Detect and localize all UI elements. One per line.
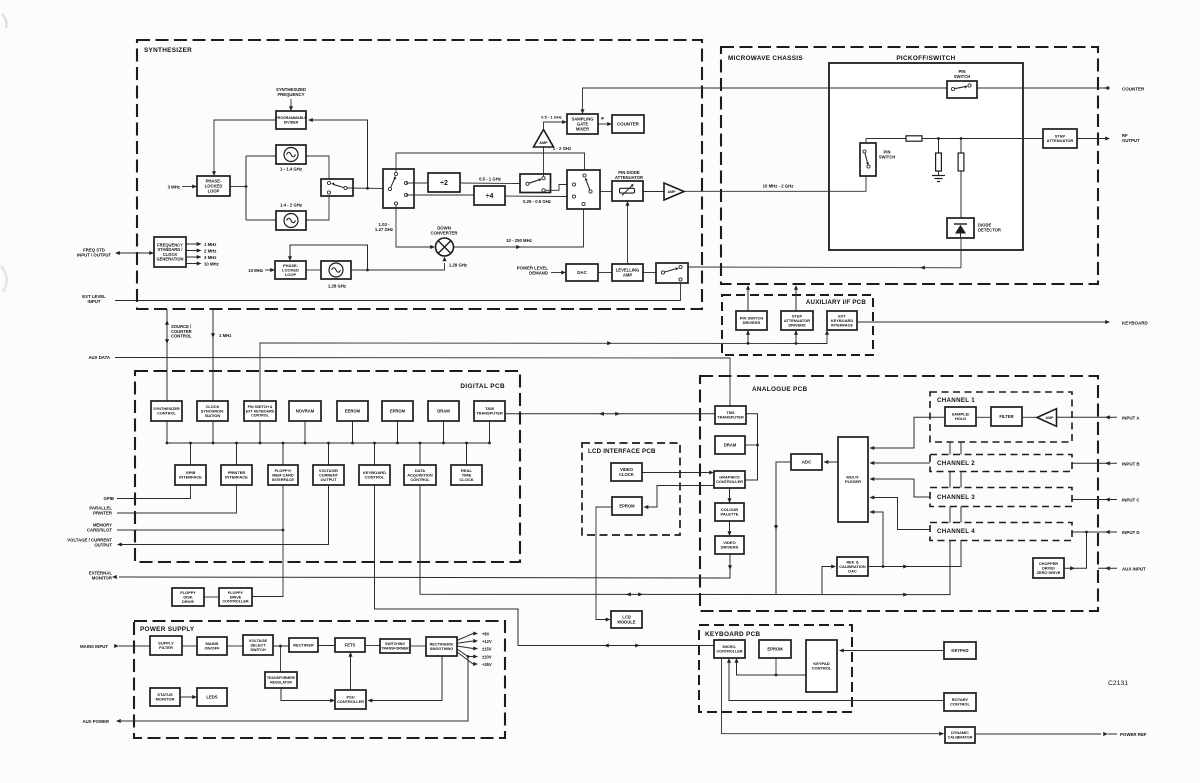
svg-text:POWER REF: POWER REF [1120, 732, 1147, 737]
arrow into sampling gate mixer [562, 120, 567, 124]
svg-text:VOLTAGESELECTSWITCH: VOLTAGESELECTSWITCH [249, 638, 268, 652]
svg-text:AMP: AMP [668, 190, 677, 194]
label KEYBOARD PCB [705, 631, 761, 638]
coupler series element [906, 136, 922, 141]
svg-text:±15V: ±15V [482, 646, 492, 651]
wire input D [1071, 530, 1117, 534]
label LCD INTERFACE PCB [588, 448, 656, 455]
wire rectifiers/smoothing to psu controller [368, 656, 443, 703]
block DATA ACQUISITION CONTROL [404, 465, 436, 485]
block RECTIFIER [289, 638, 318, 652]
block STATUS MONITOR [150, 688, 180, 706]
wire range switch to div2 [406, 182, 428, 184]
wire diode detector down [960, 238, 962, 268]
wire step attenuator to rf output [1077, 138, 1106, 140]
block PIN SWITCH & EXT KEYBOARD CONTROL [244, 401, 276, 421]
block FLOPPY DRIVE CONTROLLER [219, 588, 252, 606]
wire levelling amp to switch [643, 272, 656, 274]
svg-text:10 MHz: 10 MHz [248, 268, 263, 273]
svg-text:KEYBOARD PCB: KEYBOARD PCB [705, 631, 761, 638]
oscillator 1.28 GHz [321, 261, 351, 279]
block SAMPLING GATE MIXER [567, 114, 598, 134]
wire range switch to div4 [406, 194, 474, 196]
label INPUT D [1122, 530, 1140, 535]
label +35V [482, 662, 492, 667]
symbol diode [954, 224, 967, 238]
arrow control bus direction [607, 341, 612, 345]
label AUX INPUT [1122, 567, 1146, 572]
enclosure PICKOFF/SWITCH [829, 63, 1023, 250]
svg-text:PRINTERINTERFACE: PRINTERINTERFACE [225, 470, 248, 480]
block TRANSFORMER/REGULATOR [265, 672, 297, 688]
svg-text:0.25 - 0.5 GHz: 0.25 - 0.5 GHz [523, 199, 551, 204]
block PHASE-LOCKED LOOP 2 [275, 261, 306, 279]
oscillator 1 - 1.4 GHz [276, 145, 306, 164]
label 1.4 - 2 GHz [280, 203, 302, 208]
block COLOUR PALETTE [715, 503, 744, 521]
wire mains on/off to voltage select [227, 645, 243, 647]
amplifier AMP (to sampling mixer) [534, 130, 554, 148]
label 0.25 - 0.5 GHz [523, 199, 551, 204]
arrow into lcd module [606, 617, 611, 621]
block FILTER [991, 407, 1022, 426]
svg-text:COLOURPALETTE: COLOURPALETTE [721, 507, 739, 517]
wire div4 to output switch [505, 195, 567, 198]
resistor shunt 1 [936, 139, 942, 176]
scan artifact top-left [2, 14, 7, 28]
block SUPPLY FILTER [150, 636, 182, 655]
wire div2 to band switch [460, 182, 520, 185]
label INPUT C [1122, 498, 1140, 503]
svg-text:ADC: ADC [802, 460, 812, 465]
wire aux power [116, 657, 468, 724]
wire digital data bus [167, 442, 489, 444]
wire keypad control to microcontroller [734, 658, 806, 676]
dashed enclosure AUXILIARY I/F PCB [722, 295, 873, 355]
label 2 MHz [204, 249, 216, 254]
svg-text:EPROM: EPROM [767, 646, 783, 651]
svg-text:GPIB: GPIB [103, 496, 114, 501]
svg-text:MEMORYCARD/SLOT: MEMORYCARD/SLOT [87, 523, 112, 533]
block T805 TRANSPUTER [474, 401, 505, 421]
label C2131 [1108, 680, 1128, 687]
wire graphics controller to eprom [644, 486, 715, 510]
label PIN DIODE ATTENUATOR [615, 170, 643, 180]
svg-text:1.4 - 2 GHz: 1.4 - 2 GHz [280, 203, 302, 208]
svg-text:DRAM: DRAM [724, 442, 737, 447]
block EPROM (digital) [382, 401, 413, 421]
wire band switch node to sampling amp [543, 147, 545, 177]
svg-text:1.28 GHz: 1.28 GHz [328, 284, 346, 289]
wire psu output +12V [457, 639, 478, 643]
svg-text:SYNTHESIZER: SYNTHESIZER [144, 47, 192, 54]
label PARALLEL PRINTER [89, 506, 112, 516]
block FLOPPY/MEM CARD INTERFACE [268, 465, 298, 485]
block VOLTAGE/CURRENT OUTPUT [313, 465, 344, 485]
wire bus drop top row 6 [396, 421, 399, 444]
wire microcontroller to dynamic calibrator [722, 658, 941, 734]
svg-text:RECTIFIER: RECTIFIER [293, 642, 314, 647]
svg-text:COUNTER: COUNTER [1122, 87, 1145, 92]
switch band selector [520, 174, 551, 193]
svg-text:÷2: ÷2 [440, 180, 448, 187]
wire bus drop bottom row 2 [235, 442, 238, 465]
dashed enclosure CHANNEL 2 [930, 455, 1072, 472]
block DYNAMIC CALIBRATOR [945, 727, 975, 743]
wire rotary control to microcontroller [727, 658, 944, 701]
wire data acq line to ref dac [822, 564, 836, 594]
svg-text:KEYPAD: KEYPAD [951, 648, 968, 653]
svg-text:÷4: ÷4 [486, 193, 494, 200]
svg-text:AUX INPUT: AUX INPUT [1122, 567, 1146, 572]
arrow into PLL2 top [288, 256, 292, 261]
svg-text:EEROM: EEROM [345, 408, 361, 413]
wire oscillator1 to switch [306, 156, 329, 179]
wire freq std bidirectional [115, 251, 154, 255]
arrow into programmable divider right [308, 118, 313, 122]
svg-text:VOLTAGE/CURRENTOUTPUT: VOLTAGE/CURRENTOUTPUT [319, 468, 339, 482]
scan artifact left edge [1, 266, 7, 292]
svg-text:INPUT A: INPUT A [1122, 416, 1140, 421]
wire external monitor [112, 554, 730, 579]
label INPUT A [1122, 416, 1140, 421]
label 3 MHz [168, 185, 180, 190]
wire sampling mixer to counter box [598, 123, 608, 125]
svg-text:EXT LEVELINPUT: EXT LEVELINPUT [82, 294, 106, 304]
block CHOPPER DRIVE/ZERO DRIVE [1033, 558, 1064, 578]
wire bus drop bottom row 4 [327, 442, 330, 465]
arrow into PLL2 [270, 268, 275, 272]
block KEYPAD [944, 642, 976, 659]
dashed enclosure KEYBOARD PCB [699, 625, 852, 712]
wire channel2 to multiplexer [870, 461, 931, 465]
label IF [601, 116, 605, 121]
wire bus drop top row 1 [166, 421, 169, 444]
wire bus drop top row 2 [212, 421, 215, 444]
block EXT KEYBOARD INTERFACE [827, 311, 857, 330]
label 10 MHz input [248, 268, 263, 273]
block KEYBOARD CONTROL [359, 465, 390, 485]
block VOLTAGE SELECT SWITCH [243, 635, 273, 655]
wire status monitor to leds [180, 695, 197, 699]
wire 1-2GHz direct path [396, 153, 585, 173]
detector DIODE DETECTOR [947, 218, 974, 238]
block VIDEO DRIVERS [715, 536, 744, 554]
wire bus drop top row 7 [442, 421, 445, 444]
svg-text:1 MHz: 1 MHz [204, 242, 216, 247]
svg-text:PIN DIODEATTENUATOR: PIN DIODEATTENUATOR [615, 170, 643, 180]
wire channel1 to multiplexer [870, 417, 946, 450]
block DAC [566, 264, 598, 281]
wire power level demand [551, 272, 562, 274]
svg-text:POWER LEVELDEMAND: POWER LEVELDEMAND [517, 266, 549, 276]
wire keyboard control to keyboard pcb [375, 485, 715, 648]
svg-text:PICKOFF/SWITCH: PICKOFF/SWITCH [896, 55, 955, 62]
dashed enclosure ANALOGUE PCB [700, 376, 1098, 611]
wire input A [1057, 415, 1118, 419]
svg-text:IF: IF [601, 116, 605, 121]
wire source/counter control [165, 309, 169, 401]
block STEP ATTENUATOR DRIVERS [781, 311, 813, 330]
wire sample/hold to filter [976, 416, 991, 418]
block SYNTHESIZER CONTROL [151, 401, 182, 421]
label PIN SWITCH (top) [954, 69, 971, 79]
label 1.28 GHz (mixer) [449, 263, 467, 268]
block EPROM (lcd) [612, 497, 642, 515]
wire supply filter to mains on/off [182, 645, 197, 647]
svg-text:LCD INTERFACE PCB: LCD INTERFACE PCB [588, 448, 656, 455]
divider ÷4 [474, 186, 505, 205]
svg-text:AMP: AMP [539, 141, 548, 145]
wire T805 to TMS transputer link [505, 412, 715, 416]
label ±15V [482, 646, 492, 651]
block MULTIPLEXER [838, 437, 868, 522]
wire PLL1 output split to oscillators [230, 186, 246, 188]
svg-text:KEYPADCONTROL: KEYPADCONTROL [812, 661, 832, 671]
svg-text:10 MHz: 10 MHz [204, 262, 219, 267]
svg-text:C2131: C2131 [1108, 680, 1128, 687]
svg-text:RFOUTPUT: RFOUTPUT [1122, 133, 1140, 143]
wire switching transformer to rectifiers [410, 645, 426, 647]
label 1 - 2 GHz [553, 146, 571, 151]
wire video clock to graphics controller [642, 470, 714, 474]
block EEROM [337, 401, 368, 421]
junction resistor 2 [960, 137, 963, 140]
ground [932, 176, 945, 182]
wire memory card line [117, 529, 284, 532]
wire transformer/regulator to psu controller [281, 688, 335, 703]
symbol pin diode attenuator [620, 184, 635, 196]
label AUX DATA [88, 355, 110, 360]
switch oscillator selector [321, 179, 353, 196]
label GPIB [103, 496, 114, 501]
junction PLL1 output [245, 156, 276, 220]
wire aux data to TMS transputer [115, 358, 730, 407]
wire bus drop bottom row 3 [282, 442, 285, 465]
svg-text:RECTIFIERS/SMOOTHING: RECTIFIERS/SMOOTHING [430, 643, 455, 651]
arrow into attenuator bottom [625, 201, 629, 206]
wire bus drop bottom row 6 [419, 442, 422, 465]
arrow rf output [1105, 136, 1110, 140]
arrow into ext keyboard interface [825, 330, 829, 335]
label SYNTHESIZED FREQUENCY [276, 87, 306, 97]
block SAMPLE/HOLD [945, 407, 976, 426]
block SWITCHING TRANSFORMER [380, 639, 410, 653]
block CLOCK SYNCHRONISATION [197, 401, 228, 421]
wire pin switch drivers to chassis [746, 285, 750, 311]
svg-text:ROTARYCONTROL: ROTARYCONTROL [950, 697, 970, 707]
svg-text:AUX DATA: AUX DATA [88, 355, 110, 360]
block STEP ATTENUATOR [1043, 129, 1077, 148]
arrow 10-250 MHz direction [516, 245, 521, 249]
block RECTIFIERS/SMOOTHING [426, 637, 457, 656]
wire divider feedback to PLL1 [214, 120, 276, 172]
label 10 MHz [204, 262, 219, 267]
svg-text:2 MHz: 2 MHz [204, 249, 216, 254]
wire 10MHz input [265, 269, 271, 271]
svg-text:SYNTHESIZEDFREQUENCY: SYNTHESIZEDFREQUENCY [276, 87, 306, 97]
wire rf line to step attenuator [922, 138, 1043, 140]
svg-text:3 MHz: 3 MHz [168, 185, 180, 190]
wire rf line in pickoff [866, 138, 906, 140]
wire fets to switching transformer [365, 645, 380, 647]
wire down converter to output switch [454, 209, 584, 247]
label SOURCE / COUNTER CONTROL [171, 324, 192, 339]
svg-text:FLOPPY/MEM CARDINTERFACE: FLOPPY/MEM CARDINTERFACE [272, 468, 294, 482]
wire attenuator to amp [643, 191, 664, 193]
label SYNTHESIZER [144, 47, 192, 54]
wire clock output 1 MHz [186, 242, 202, 246]
switch levelling selector [656, 263, 688, 283]
wire input C [1072, 497, 1117, 501]
wire data acquisition to analogue [420, 485, 950, 596]
block LEDS [197, 688, 227, 706]
wire bus drop top row 5 [351, 421, 354, 444]
label CHANNEL 3 [937, 494, 975, 501]
wire bus drop bottom row 5 [373, 442, 376, 465]
resistor shunt 2 [958, 139, 964, 219]
svg-text:CHANNEL 1: CHANNEL 1 [937, 397, 975, 404]
oscillator 1.4 - 2 GHz [276, 211, 306, 230]
block EPROM (keyboard) [759, 640, 791, 658]
wire gpib interface out [117, 485, 191, 499]
label DIODE DETECTOR [978, 223, 1001, 233]
svg-text:FILTER: FILTER [999, 414, 1013, 419]
switch output selector [567, 170, 600, 209]
wire adc to data acquisition line [774, 462, 791, 594]
svg-text:DAC: DAC [577, 270, 587, 275]
wire bus drop top row 4 [304, 421, 307, 444]
wire bus drop bottom row 1 [189, 442, 192, 465]
block DRAM (analogue) [715, 436, 745, 454]
dashed enclosure POWER SUPPLY [134, 621, 505, 738]
dashed enclosure CHANNEL 3 [930, 488, 1072, 507]
block FLOPPY DISK DRIVE [172, 588, 204, 606]
attenuator PIN DIODE ATTENUATOR [612, 181, 643, 201]
svg-text:AUXILIARY I/F PCB: AUXILIARY I/F PCB [806, 299, 866, 306]
switch range selector [383, 169, 414, 208]
wire 10MHz-2GHz to microwave chassis [684, 176, 866, 191]
dashed enclosure MICROWAVE CHASSIS [721, 47, 1098, 284]
svg-text:10 MHz - 2 GHz: 10 MHz - 2 GHz [763, 184, 794, 189]
svg-text:MULTI-PLEXER: MULTI-PLEXER [845, 475, 861, 485]
wire multiplexer to adc [824, 460, 839, 464]
wire eprom to keypad control bus [775, 658, 777, 675]
label ±20V [482, 654, 492, 659]
svg-text:1.28 GHz: 1.28 GHz [449, 263, 467, 268]
block GRAPHICS CONTROLLER [714, 471, 745, 488]
wire ext keyboard interface to keyboard [857, 320, 1110, 324]
wire tms to graphics via dram [745, 414, 759, 480]
svg-text:±20V: ±20V [482, 654, 492, 659]
label AUXILIARY I/F PCB [806, 299, 866, 306]
svg-text:EPROM: EPROM [390, 408, 406, 413]
block VIDEO CLOCK [611, 463, 642, 481]
label 1.03 - 1.27 GHz [375, 222, 393, 232]
junction 1.28GHz feedback [290, 245, 369, 271]
dashed enclosure CHANNEL 1 [930, 392, 1072, 442]
label VOLTAGE / CURRENT OUTPUT [67, 538, 112, 548]
block GPIB INTERFACE [175, 465, 206, 485]
svg-text:EXTERNALMONITOR: EXTERNALMONITOR [89, 571, 113, 581]
svg-text:AMP: AMP [1046, 416, 1055, 420]
arrow into dynamic calibrator [939, 732, 944, 736]
block LEVELLING AMP [612, 264, 643, 281]
junction resistor 1 [937, 137, 940, 140]
label 1 MHz (clock) [219, 333, 231, 338]
label 1 - 1.4 GHz [280, 167, 302, 172]
wire psu output ±20V [457, 649, 478, 659]
wire psu controller to fets [348, 652, 352, 690]
wire osc 1.28GHz to mixer [351, 263, 445, 270]
label DIGITAL PCB [460, 383, 505, 390]
wire channel4 to multiplexer [870, 495, 930, 529]
wire voltage/current output [117, 485, 329, 547]
svg-text:CHANNEL 4: CHANNEL 4 [937, 528, 975, 535]
svg-text:10 - 250 MHz: 10 - 250 MHz [506, 238, 532, 243]
label CHANNEL 2 [937, 460, 975, 467]
svg-text:FETS: FETS [345, 642, 356, 647]
block FREQUENCY STANDARD / CLOCK GENERATION [154, 237, 186, 267]
wire dynamic calibrator to power ref [975, 732, 1117, 736]
dashed enclosure DIGITAL PCB [135, 371, 520, 562]
label RF OUTPUT [1122, 133, 1140, 143]
label 3 MHz [204, 255, 216, 260]
wire 3 MHz input [182, 186, 193, 188]
svg-text:COUNTER: COUNTER [617, 122, 640, 127]
label CHANNEL 4 [937, 528, 975, 535]
dashed enclosure CHANNEL 4 [930, 523, 1072, 541]
arrow into programmable divider [289, 106, 293, 111]
label CHANNEL 1 [937, 397, 975, 404]
wire levelling switch to diode detector [688, 266, 961, 269]
wire bus drop top row 3 [259, 421, 262, 444]
wire output switch to attenuator [600, 191, 612, 193]
block PSU CONTROLLER [335, 690, 366, 709]
wire calibration bus stub [950, 442, 961, 455]
block ROTARY CONTROL [944, 693, 976, 711]
svg-text:INPUT B: INPUT B [1122, 462, 1140, 467]
junction pin switch drivers [746, 330, 750, 345]
svg-text:DRAM: DRAM [437, 408, 450, 413]
wire dram link [745, 444, 758, 446]
divider ÷2 [428, 173, 460, 192]
wire mains input [114, 644, 150, 648]
wire bus drop bottom row 7 [465, 442, 468, 465]
svg-text:EPROM: EPROM [619, 503, 635, 508]
label FREQ STD INPUT / OUTPUT [77, 248, 112, 258]
arrow video drivers down [728, 565, 732, 570]
wire input B [1072, 461, 1117, 465]
wire voltage select to rectifier [273, 645, 289, 648]
svg-text:1 MHz: 1 MHz [219, 333, 231, 338]
arrow into DAC [561, 270, 566, 274]
svg-text:FREQ STDINPUT / OUTPUT: FREQ STDINPUT / OUTPUT [77, 248, 112, 258]
wire band switch to output switch [545, 185, 567, 191]
arrow into down converter [430, 245, 435, 249]
wire psu output +8V [457, 631, 478, 640]
svg-text:0.5 - 1 GHz: 0.5 - 1 GHz [479, 177, 501, 182]
wire calibration bus stub [950, 472, 961, 488]
wire floppy drive link [204, 596, 219, 598]
wire chopper drive to input D [1064, 532, 1087, 570]
arrow 1.28GHz into mixer [442, 257, 446, 262]
wire psu output ±15V [457, 646, 478, 651]
block MICRO-CONTROLLER [714, 640, 745, 658]
arrow counter (to external) [1104, 86, 1109, 90]
wire voltage select to transformer/regulator [280, 646, 282, 672]
wire printer interface out [117, 485, 237, 513]
